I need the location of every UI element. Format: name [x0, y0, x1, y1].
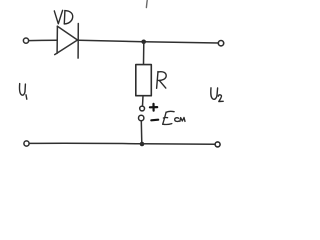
label VD — [54, 10, 72, 24]
bottom rail wire — [29, 142, 215, 145]
terminal (output top-right) — [218, 41, 223, 46]
wire: junction down to resistor — [143, 42, 145, 65]
diode VD — [55, 24, 79, 59]
resistor R — [136, 65, 152, 96]
label Ecm — [163, 111, 185, 124]
wire: resistor to source terminal — [142, 96, 145, 106]
terminal (output bottom-right) — [215, 142, 220, 147]
label U1 — [19, 84, 26, 100]
wire: left terminal to diode anode — [29, 39, 57, 41]
label U2 — [211, 88, 223, 102]
wire: diode cathode to right terminal — [79, 40, 218, 43]
label R — [157, 72, 167, 89]
node junction (top) — [141, 40, 146, 45]
stray mark top edge — [145, 1, 148, 8]
minus sign — [151, 119, 158, 122]
wire: source terminal down to bottom rail — [140, 121, 143, 144]
terminal (input top-left) — [23, 38, 28, 43]
node junction (bottom) — [140, 142, 145, 147]
plus sign — [150, 104, 157, 111]
terminal (+ of Ecm) — [140, 106, 145, 111]
terminal (input bottom-left) — [24, 141, 29, 146]
terminal (- of Ecm) — [139, 115, 144, 120]
paper background — [0, 0, 250, 172]
